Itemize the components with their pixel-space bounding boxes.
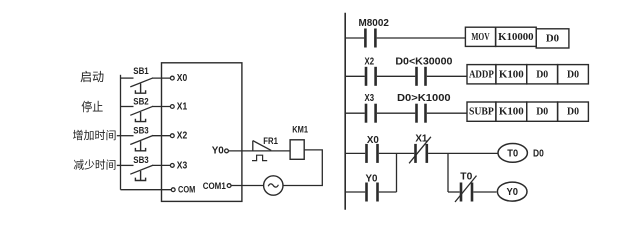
svg-text:KM1: KM1	[292, 125, 308, 135]
svg-text:K10000: K10000	[498, 32, 533, 43]
svg-text:X2: X2	[177, 131, 188, 142]
svg-text:T0: T0	[460, 170, 472, 182]
svg-text:Y0: Y0	[212, 146, 225, 157]
svg-text:SB2: SB2	[133, 96, 148, 106]
svg-text:X0: X0	[367, 134, 379, 146]
svg-text:X3: X3	[177, 160, 188, 171]
svg-text:K100: K100	[499, 107, 524, 118]
svg-text:ADDP: ADDP	[469, 69, 494, 80]
svg-text:K100: K100	[499, 69, 524, 80]
svg-text:X3: X3	[365, 92, 375, 104]
svg-text:X1: X1	[177, 102, 188, 113]
svg-text:SB1: SB1	[133, 66, 148, 76]
svg-text:D0: D0	[567, 69, 579, 80]
svg-text:X1: X1	[415, 133, 427, 145]
svg-text:X2: X2	[365, 56, 375, 68]
svg-text:SB3: SB3	[133, 155, 148, 165]
svg-text:M8002: M8002	[359, 17, 389, 29]
svg-text:D0: D0	[546, 33, 559, 44]
svg-text:Y0: Y0	[366, 172, 378, 184]
svg-text:SUBP: SUBP	[469, 107, 494, 118]
svg-text:D0>K1000: D0>K1000	[397, 92, 451, 104]
svg-text:减少时间: 减少时间	[73, 159, 116, 172]
svg-text:D0: D0	[567, 107, 579, 118]
svg-text:停止: 停止	[81, 99, 103, 114]
svg-text:D0: D0	[533, 148, 544, 160]
svg-text:D0<K30000: D0<K30000	[395, 56, 452, 68]
svg-text:Y0: Y0	[506, 186, 518, 198]
svg-text:FR1: FR1	[263, 136, 278, 146]
svg-text:COM1: COM1	[203, 181, 227, 192]
svg-text:COM: COM	[178, 185, 195, 196]
svg-text:SB3: SB3	[133, 126, 148, 136]
svg-text:T0: T0	[507, 147, 518, 159]
svg-text:MOV: MOV	[471, 32, 490, 43]
svg-text:增加时间: 增加时间	[73, 128, 117, 142]
svg-text:D0: D0	[536, 107, 548, 118]
svg-text:X0: X0	[177, 73, 188, 84]
svg-text:D0: D0	[536, 69, 548, 80]
svg-text:启动: 启动	[80, 70, 104, 84]
